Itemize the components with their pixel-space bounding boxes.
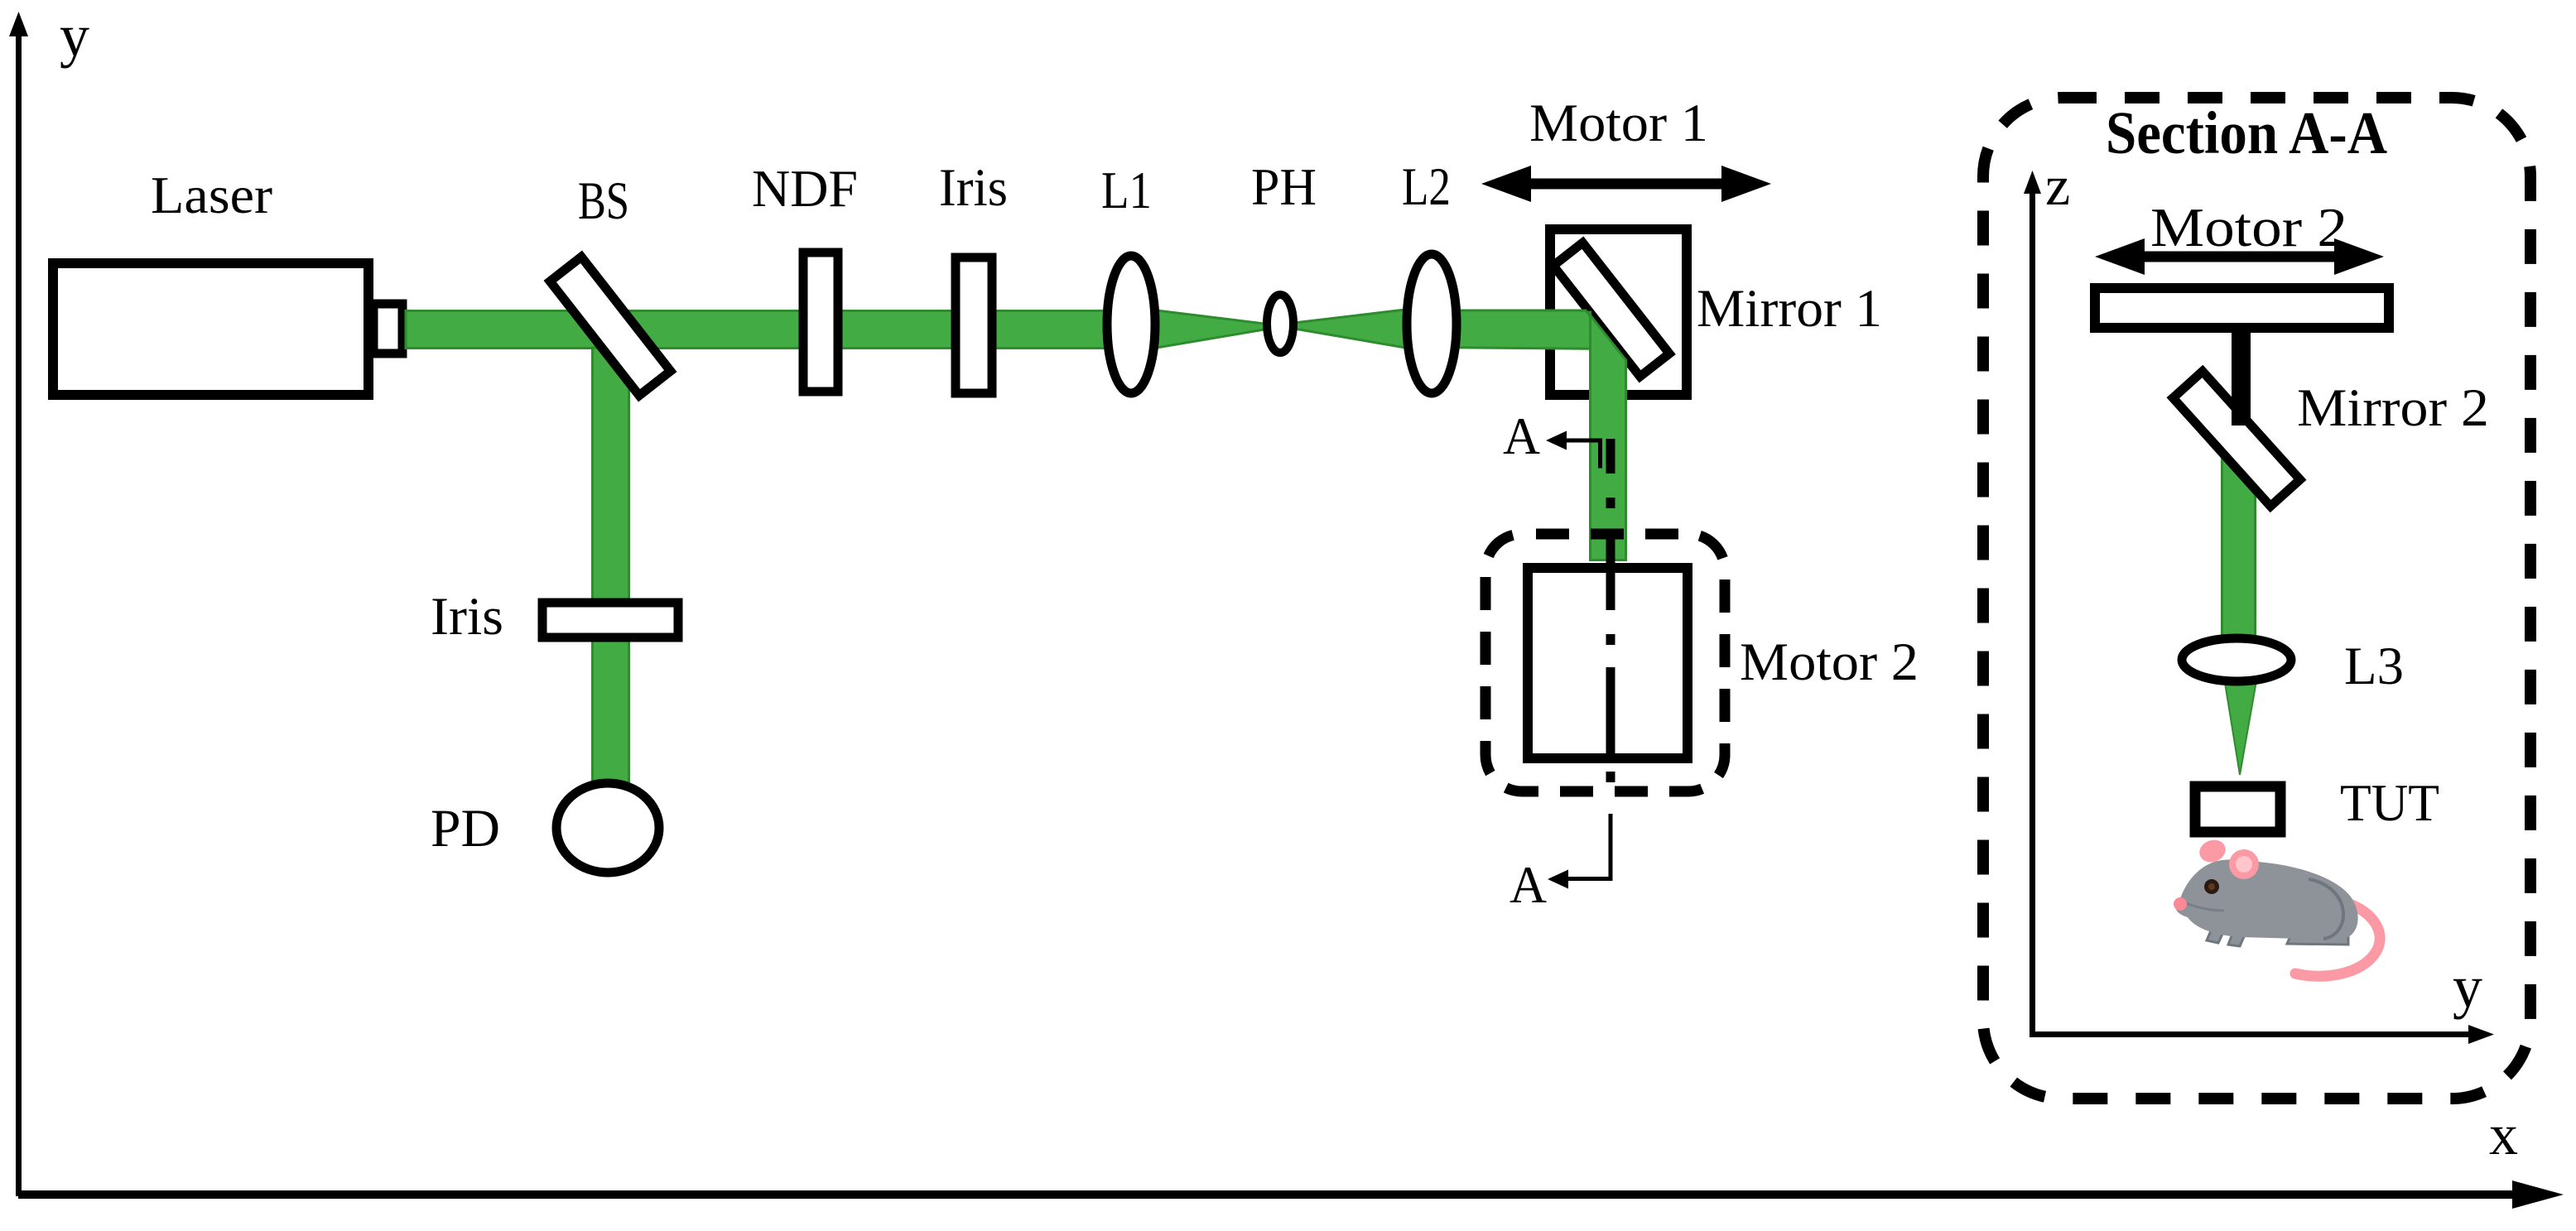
beam BS to PD [593, 348, 629, 785]
mouse body and head [2175, 859, 2357, 940]
motor 1 travel arrow [1481, 166, 1771, 202]
mouse near ear [2229, 849, 2259, 879]
mirror 2 stem [2232, 328, 2251, 426]
pinhole PH [1267, 295, 1293, 353]
mouse far ear [2197, 836, 2229, 865]
beam mirror 2 to L3 [2222, 451, 2256, 637]
svg-text:PD: PD [431, 799, 500, 858]
svg-text:PH: PH [1251, 158, 1317, 216]
svg-text:Mirror 2: Mirror 2 [2297, 378, 2489, 438]
neutral density filter NDF [803, 252, 838, 392]
section line A-A lower elbow arrow [1548, 814, 1613, 889]
beam diverging PH to L2 [1294, 310, 1405, 348]
laser [53, 263, 402, 395]
Section A-A dashed panel border [1983, 98, 2530, 1099]
svg-text:y: y [2453, 954, 2482, 1020]
svg-text:Motor 2: Motor 2 [2150, 197, 2347, 258]
mouse rear foot [2287, 929, 2348, 945]
lens L3 [2182, 638, 2291, 681]
mouse snout shading [2179, 901, 2224, 911]
lens L2 [1407, 254, 1457, 393]
section line A-A (dash-dot) [1606, 439, 1615, 782]
svg-text:NDF: NDF [752, 160, 858, 218]
svg-text:Laser: Laser [151, 166, 272, 224]
mouse (test subject) [2174, 836, 2380, 976]
mouse tail [2295, 904, 2380, 976]
mirror 2 [2173, 372, 2299, 507]
svg-text:Iris: Iris [939, 158, 1008, 218]
y-axis (section) [2030, 1025, 2494, 1044]
photodiode PD [556, 783, 659, 873]
beam laser to L1 [406, 311, 1136, 349]
svg-text:Iris: Iris [431, 587, 503, 647]
mouse nose [2174, 897, 2187, 911]
svg-text:L2: L2 [1402, 157, 1451, 217]
iris (top) [956, 257, 992, 393]
svg-text:A: A [1503, 406, 1540, 465]
svg-text:A: A [1509, 855, 1547, 914]
y-axis (main) [9, 12, 28, 1196]
motor 2 dashed enclosure (plan) [1485, 534, 1725, 791]
svg-text:Mirror 1: Mirror 1 [1697, 279, 1882, 339]
beam cone L3 to TUT [2222, 662, 2260, 775]
svg-text:z: z [2045, 154, 2070, 217]
mouse haunch [2309, 879, 2343, 939]
lens L1 [1107, 256, 1155, 393]
svg-text:y: y [60, 2, 89, 69]
svg-text:x: x [2489, 1104, 2518, 1167]
z-axis (section) [2024, 171, 2041, 1037]
svg-text:L3: L3 [2344, 637, 2404, 696]
x-axis (main) [18, 1181, 2564, 1209]
tissue under test TUT [2195, 786, 2280, 832]
section line A-A upper elbow arrow [1546, 431, 1602, 469]
svg-text:BS: BS [578, 171, 629, 231]
motor 2 stage (section) [2095, 288, 2389, 328]
motor 2 box (plan) [1528, 568, 1688, 758]
svg-text:TUT: TUT [2340, 774, 2439, 832]
beam converging L1 to PH [1157, 310, 1264, 348]
iris (PD branch) [542, 603, 678, 637]
svg-text:Motor 1: Motor 1 [1529, 94, 1708, 153]
mirror 1 mount box [1550, 229, 1687, 395]
svg-text:L1: L1 [1101, 161, 1152, 219]
motor 2 travel arrow (section) [2095, 238, 2384, 275]
mouse front legs [2207, 916, 2229, 943]
mouse eye [2204, 879, 2219, 894]
svg-text:Motor 2: Motor 2 [1740, 632, 1919, 692]
beam mirror 1 down to motor 2 [1588, 312, 1626, 560]
mirror 1 [1553, 243, 1669, 377]
svg-text:Section A-A: Section A-A [2106, 99, 2387, 166]
beam splitter BS [550, 257, 671, 395]
beam L2 to mirror 1 [1427, 310, 1616, 349]
